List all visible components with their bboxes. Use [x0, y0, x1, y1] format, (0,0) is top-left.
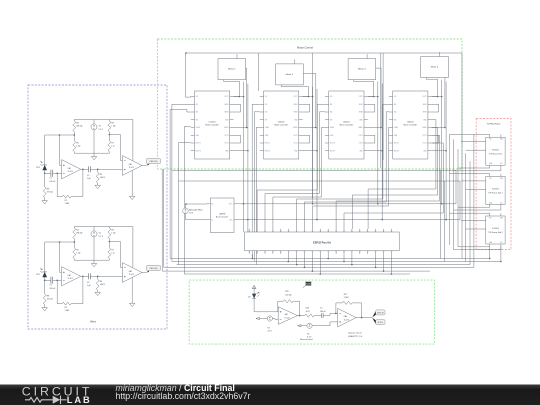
junction bus left [185, 52, 187, 54]
svg-text:980 kΩ: 980 kΩ [76, 233, 83, 235]
wire wrap bus 3 [164, 266, 474, 268]
svg-text:OA6: OA6 [344, 315, 347, 318]
svg-text:V4: V4 [307, 333, 309, 335]
svg-text:BOOT1: BOOT1 [196, 143, 201, 145]
wire motor V+ bus [186, 52, 462, 54]
wire ESP bottom drop 3 [304, 254, 306, 267]
wire U4 OUT tap [432, 127, 445, 129]
wire OA2 out 1 [142, 165, 146, 167]
svg-text:OUT3: OUT3 [224, 135, 228, 137]
wire U1 GND tap [234, 150, 248, 152]
svg-text:EN: EN [196, 119, 198, 121]
wire bridge right tap to OA2- 1 [109, 135, 122, 161]
wire bridge bottom 2 [74, 259, 109, 261]
junction rail A 2 [312, 203, 314, 205]
wire long run 1 [172, 170, 456, 172]
svg-text:Motor 1: Motor 1 [228, 68, 236, 71]
svg-text:PD1: PD1 [36, 167, 40, 169]
U1 pin stubs [191, 96, 234, 98]
wire red rail 2 [453, 139, 455, 249]
wire U2 OUT tap [303, 127, 316, 129]
svg-text:Wires: Wires [90, 321, 97, 324]
wire bus link to ESP pin [265, 194, 319, 229]
power flag VCC3V3 [306, 282, 312, 286]
wire bus drop left [185, 53, 187, 97]
wire bus drop 4a [380, 53, 382, 168]
resistor R16 10 Ohm [305, 314, 315, 317]
svg-text:TOF Sensor Front: TOF Sensor Front [489, 152, 503, 155]
wire R3 gnd 1 [97, 183, 99, 185]
svg-text:SEN2: SEN2 [359, 112, 363, 114]
junction ESP drop 1 [288, 261, 290, 263]
wire U3 sense loop A [368, 104, 375, 112]
U4 pin stubs [389, 96, 432, 98]
svg-text:EN: EN [330, 119, 332, 121]
wire right riser 4 [473, 134, 475, 267]
wire staircase U4 to ESP [344, 143, 443, 229]
svg-text:SEN: SEN [196, 135, 199, 137]
svg-text:SEN1: SEN1 [224, 104, 228, 106]
svg-text:SEN1: SEN1 [294, 104, 298, 106]
svg-text:L6201/2: L6201/2 [209, 121, 216, 123]
motor M3 pins [366, 56, 368, 59]
wire ESP bottom drop 11 [390, 254, 392, 274]
wire signal riser 2 [256, 127, 259, 264]
svg-text:VS: VS [394, 96, 396, 98]
wire 1 [93, 153, 95, 156]
wire motor M1 lead B [246, 68, 247, 127]
wire OA2 out 2 [142, 272, 146, 274]
resistor R82 (371 kOhm) [43, 294, 46, 305]
svg-text:OA2: OA2 [129, 270, 132, 273]
wire ESP bottom drop 7 [343, 254, 345, 262]
svg-text:SEN2: SEN2 [294, 112, 298, 114]
motor M2 [276, 64, 304, 85]
ground R8 2 [42, 308, 48, 311]
microcontroller ESP32 Pico Kit [245, 232, 400, 251]
wire rail C cluster 4 [445, 82, 447, 220]
wire sensor 3 SDA [458, 246, 490, 248]
capacitor C12 100nF [51, 277, 53, 284]
ground R3 2 [95, 292, 101, 295]
svg-text:R16: R16 [306, 308, 309, 310]
motor controller U2 (L6201/2) [264, 91, 299, 159]
wire red rail 4 [465, 153, 467, 261]
resistor R52 (1 kOhm) [73, 248, 76, 259]
wire OA5 fb left [278, 301, 284, 312]
wire C2 to OA2 + 2 [90, 275, 122, 277]
svg-text:LM2596: LM2596 [219, 214, 226, 216]
wire U2 sense loop A [303, 104, 310, 112]
svg-text:R6: R6 [111, 122, 113, 124]
resistor R51 (1 kOhm) [73, 141, 76, 152]
svg-text:371 kΩ: 371 kΩ [47, 299, 54, 301]
wire source+ to buck [186, 204, 207, 208]
node diode output 2 [44, 280, 46, 282]
wire U2 OUT1 to motor [303, 96, 309, 98]
wire right riser 1 [461, 171, 463, 259]
wire V+ supply to OA2 2 [132, 227, 134, 268]
wire OA2 V- 2 [131, 278, 133, 304]
wire ESP bottom drop 1 [287, 254, 289, 262]
wire bridge left node 2 [73, 239, 75, 248]
ESP32 pin stubs top/bottom [248, 229, 250, 254]
wire [190, 103, 192, 105]
junction [335, 313, 337, 315]
wire buck GND to ESP [247, 220, 249, 232]
svg-text:OUT4: OUT4 [423, 143, 427, 145]
output flag GPIO4 [372, 318, 376, 324]
wire wrap bus 5 [184, 273, 410, 275]
junction ESP drop 11 [391, 273, 393, 275]
junction rail B 2 [315, 127, 317, 129]
node OA1 out 2 [82, 276, 84, 278]
wire sensor 1 left B [466, 149, 486, 151]
junction OA6 out [361, 317, 363, 319]
wire 2 [108, 259, 110, 261]
wire to op-amp + 1 [60, 135, 62, 165]
node opamp+ tap 1 [59, 134, 61, 136]
junction rail C 2 [316, 219, 318, 221]
wire OA5 fb right [293, 301, 300, 315]
wire riser A [171, 104, 173, 261]
resistor R42 (980 kOhm) [73, 228, 76, 239]
node fb 1 [56, 173, 58, 175]
wire ESP bottom drop 10 [383, 254, 385, 271]
wire rail A cluster 4 [441, 80, 443, 204]
svg-text:BOOT2: BOOT2 [265, 150, 270, 152]
svg-text:R2: R2 [65, 307, 67, 309]
wire left riser 1 [161, 169, 163, 271]
wire sensor3 SDA drop [489, 247, 491, 259]
wire rail up right [455, 171, 457, 204]
svg-text:100 Ω: 100 Ω [100, 284, 106, 286]
wire OA5 out [298, 315, 305, 317]
wire R8 to ground 1 [44, 198, 46, 201]
op-amp OA12 TL-072 [62, 267, 81, 286]
wire motor M4 lead B [445, 66, 448, 128]
op-amp OA21 TL-072 [122, 156, 142, 176]
wire [187, 110, 191, 113]
svg-text:OUT+: OUT+ [229, 204, 233, 206]
wire bus link to ESP pin [273, 197, 322, 229]
node R3 top 1 [97, 169, 99, 171]
svg-text:Motor 2: Motor 2 [286, 73, 294, 76]
wire sensor 2 left A [461, 180, 486, 182]
ground below bridge 1 [91, 157, 97, 160]
svg-text:BOOT1: BOOT1 [265, 143, 270, 145]
wire LED top [253, 289, 255, 294]
output flag DIFD SIGNAL 1 [146, 164, 149, 166]
svg-text:VL53L0X: VL53L0X [492, 149, 500, 151]
wire staircase U4 to ESP [368, 120, 436, 229]
svg-text:3.3 V: 3.3 V [307, 337, 312, 339]
wire staircase U4 to ESP [352, 127, 437, 229]
wire U1 sense loop A [234, 104, 241, 112]
wire bus link to ESP pin [297, 199, 383, 229]
wire bridge top rail 1 [74, 119, 133, 121]
wire C1 to op-amp - 1 [53, 172, 62, 174]
wire V+ rail across [238, 203, 456, 205]
svg-text:SEN2: SEN2 [423, 112, 427, 114]
svg-text:371 kΩ: 371 kΩ [47, 192, 54, 194]
svg-text:980 kΩ: 980 kΩ [76, 126, 83, 128]
svg-text:Beacon Circuit: Beacon Circuit [348, 332, 361, 335]
wire to U1 IN2 [170, 109, 187, 111]
wire motor M3 lead A [354, 80, 374, 97]
wire wrap bus 2 [177, 264, 470, 266]
junction ESP drop 4 [312, 270, 314, 272]
wire diode bottom 2 [44, 277, 46, 280]
resistor R81 (371 kOhm) [43, 187, 46, 198]
node bridge right 1 [109, 134, 111, 136]
motor M2 pins [294, 61, 296, 64]
wire R16 to C3 [314, 315, 321, 317]
wire motor M3 lead B [376, 68, 381, 127]
junction rail C 1 [247, 219, 249, 221]
junction ESP drop 5 [320, 273, 322, 275]
svg-text:SEN: SEN [330, 135, 333, 137]
svg-text:QUANTITY: 2-6: QUANTITY: 2-6 [348, 335, 363, 338]
motor controller U1 (L6201/2) [195, 91, 230, 159]
junction 1 [243, 96, 245, 98]
wire signal riser 7 [386, 112, 389, 202]
U2 pin stubs [260, 96, 303, 98]
wire ESP bottom drop 4 [311, 254, 313, 271]
wire red rail 5 [440, 171, 442, 259]
wire ESP bottom drop 9 [375, 254, 377, 267]
wire U2 GND tap [303, 150, 317, 152]
wire bridge left node 1 [73, 132, 75, 141]
wire long run 2 [179, 180, 460, 182]
svg-text:OUT3: OUT3 [359, 135, 363, 137]
wire signal riser 5 [322, 127, 326, 197]
wire rail C cluster 1 [247, 84, 249, 220]
junction ESP drop 0 [252, 258, 254, 260]
motor controller U3 (L6201/2) [329, 91, 364, 159]
voltage source V1 5.2V [91, 124, 97, 130]
motor M1 pins [236, 56, 238, 59]
svg-text:R2: R2 [65, 200, 67, 202]
junction ESP drop 9 [375, 267, 377, 269]
wire rail A cluster 3 [377, 82, 379, 204]
wire C2 to OA2 + 1 [90, 168, 122, 170]
ground R8 1 [42, 201, 48, 204]
svg-text:TOF Sensor Side 2: TOF Sensor Side 2 [488, 231, 502, 234]
wire rail up right2 [459, 181, 461, 220]
wire flag to V3 [260, 318, 268, 320]
wire U4 VS tap [432, 96, 442, 98]
sensor 1 pin stubs [490, 134, 501, 168]
svg-text:OUT3: OUT3 [423, 135, 427, 137]
wire U2 VS tap [303, 96, 313, 98]
group box: TOF/Wall Follow (red dashed) [476, 119, 511, 250]
node fb 2 [56, 280, 58, 282]
wire U4 OUT1 to motor [432, 96, 438, 98]
svg-text:VL53L0X: VL53L0X [492, 228, 500, 230]
wire motor M3 pin stub [366, 54, 368, 56]
svg-text:IN2: IN2 [265, 112, 268, 114]
svg-text:OUT3: OUT3 [293, 135, 297, 137]
node bridge left 2 [74, 241, 76, 243]
junction 3 [381, 150, 383, 152]
svg-text:D5: D5 [248, 296, 250, 298]
svg-text:10 Ω: 10 Ω [306, 311, 311, 313]
svg-text:Motor Controller: Motor Controller [404, 124, 418, 127]
svg-text:OA5: OA5 [284, 313, 287, 316]
svg-text:TOF Sensor Side 1: TOF Sensor Side 1 [488, 192, 502, 195]
svg-text:http://circuitlab.com/ct3xdx2v: http://circuitlab.com/ct3xdx2vh6v7r [116, 391, 251, 401]
capacitor C3 100nF [321, 313, 323, 318]
wire signal riser 4 [319, 112, 325, 194]
svg-text:L6201/2: L6201/2 [407, 121, 414, 123]
svg-text:PD1: PD1 [36, 274, 40, 276]
svg-text:1 MΩ: 1 MΩ [344, 297, 349, 299]
wire U4 sense loop B [432, 135, 439, 143]
svg-text:VIN: VIN [489, 139, 492, 141]
svg-text:L6201/2: L6201/2 [278, 121, 285, 123]
wire V3 to OA5 - [272, 318, 278, 321]
svg-text:V1: V1 [99, 233, 101, 235]
svg-text:R3: R3 [100, 174, 102, 176]
voltage source V3 3.3V [267, 316, 272, 321]
wire 2 [93, 260, 95, 263]
resistor R31 (100 Ohm) [96, 172, 99, 183]
junction motor lead 2 [308, 96, 310, 98]
op-amp OA5 TL-072 [278, 307, 297, 325]
wire ESP bottom drop 8 [351, 254, 353, 265]
wire rail C cluster 3 [381, 84, 383, 220]
svg-text:VL53L0X: VL53L0X [492, 189, 500, 191]
junction ESP drop 2 [296, 264, 298, 266]
wire sensor 2 SCL [454, 207, 501, 210]
junction ESP drop 6 [327, 258, 329, 260]
wire diode top 1 [44, 135, 46, 165]
wire R8 to ground 2 [44, 305, 46, 308]
wire bus link to ESP pin [305, 202, 387, 229]
wire signal riser 3 [317, 104, 325, 190]
wire V+ supply to OA2 1 [132, 120, 134, 161]
node diode output 1 [44, 173, 46, 175]
sensor 2 pin stubs [490, 174, 501, 208]
node bridge left 1 [74, 134, 76, 136]
junction 4 [441, 96, 443, 98]
wire to R8 2 [44, 280, 46, 294]
wire feedback left 2 [57, 280, 62, 303]
arrow flag V3 input [256, 317, 259, 319]
junction rail B 3 [380, 127, 382, 129]
svg-text:Motor Control: Motor Control [297, 46, 313, 50]
wire bridge right node 1 [108, 132, 110, 141]
group box: Beacon (green dashed) [189, 280, 434, 344]
wire R3 gnd 2 [97, 290, 99, 292]
wire feedback right 1 [71, 169, 83, 196]
resistor R71 (1 Ohm) [108, 141, 111, 152]
wire V4 to OA6 + [312, 322, 338, 326]
wire to U1 IN1 [172, 103, 191, 105]
wire sensor 3 SCL [454, 247, 501, 250]
wire U3 OUT1 to motor [368, 96, 374, 98]
svg-text:BOOT2: BOOT2 [394, 150, 399, 152]
wire staircase U4 to ESP [336, 135, 439, 229]
resistor R41 (980 kOhm) [73, 121, 76, 132]
svg-text:R7: R7 [111, 143, 113, 145]
ground below bridge 2 [91, 264, 97, 267]
svg-text:SCL: SCL [500, 163, 503, 165]
junction 4 [445, 150, 447, 152]
svg-text:C3: C3 [320, 308, 322, 310]
svg-text:IN2: IN2 [394, 112, 397, 114]
wire bus drop 3 [312, 53, 314, 198]
svg-text:OA1: OA1 [68, 167, 71, 170]
wire OA6 fb left [336, 303, 343, 314]
arrow flag V4 input [298, 325, 301, 327]
wire bridge top rail 2 [74, 226, 133, 228]
wire motor M4 lead A [426, 78, 437, 97]
wire bridge right tap to OA2- 2 [109, 242, 122, 268]
svg-text:Motor Controller: Motor Controller [205, 124, 219, 127]
wire OA2 V- 1 [131, 171, 133, 197]
wire U3 OUT tap [368, 127, 381, 129]
wire U1 OUT tap [234, 127, 247, 129]
wire U3 GND tap [368, 150, 382, 152]
wire bridge left tap 1 [45, 134, 75, 136]
wire sensor 3 VIN [450, 212, 490, 214]
voltage source V5 Allowable Motor 30V [183, 208, 189, 214]
wire OA6 fb right [352, 303, 362, 318]
wire U3 sense loop B [368, 135, 375, 143]
svg-text:EN: EN [265, 119, 267, 121]
svg-text:BOOT1: BOOT1 [394, 143, 399, 145]
node R3 top 2 [97, 276, 99, 278]
svg-text:IN2: IN2 [196, 112, 199, 114]
junction rail B 4 [444, 127, 446, 129]
ground OA2 2 [129, 303, 135, 306]
wire to R8 1 [44, 173, 46, 187]
svg-text:R3: R3 [100, 281, 102, 283]
wire ESP bottom drop 2 [296, 254, 298, 265]
wire bus link to ESP pin [312, 206, 388, 229]
svg-text:VREF: VREF [330, 127, 334, 129]
svg-text:TL-072: TL-072 [344, 319, 349, 321]
wire U1 OUT1 to motor [234, 96, 240, 98]
wire OA6 out [356, 317, 372, 319]
output flag GPIO36 [372, 311, 376, 317]
svg-text:100 nF: 100 nF [49, 288, 56, 290]
svg-text:SEN1: SEN1 [359, 104, 363, 106]
wire U2 sense loop B [303, 135, 310, 143]
motor controller U4 (L6201/2) [393, 91, 428, 159]
svg-text:IN1: IN1 [196, 104, 199, 106]
ground OA2 1 [129, 196, 135, 199]
buck converter U5 (LM2596) [210, 198, 234, 233]
svg-text:3.3 V: 3.3 V [268, 331, 273, 333]
resistor R21 1 MOhm (feedback) [62, 195, 71, 198]
svg-text:OUT4: OUT4 [224, 143, 228, 145]
wire motor M2 pin stub [294, 59, 296, 61]
resistor R22 1 MOhm (feedback) [62, 302, 71, 305]
logo diode [53, 396, 61, 404]
svg-text:100 Ω: 100 Ω [100, 177, 106, 179]
wire LED to OA5 + [254, 299, 278, 312]
svg-text:SEN1: SEN1 [423, 104, 427, 106]
svg-text:TL-072: TL-072 [129, 274, 134, 276]
wire red rail 3 [457, 149, 459, 247]
motor M1 [218, 59, 246, 80]
capacitor C11 100nF [51, 170, 53, 177]
wire diode bottom 1 [44, 170, 46, 173]
wire sensor 1 left A [461, 141, 486, 143]
